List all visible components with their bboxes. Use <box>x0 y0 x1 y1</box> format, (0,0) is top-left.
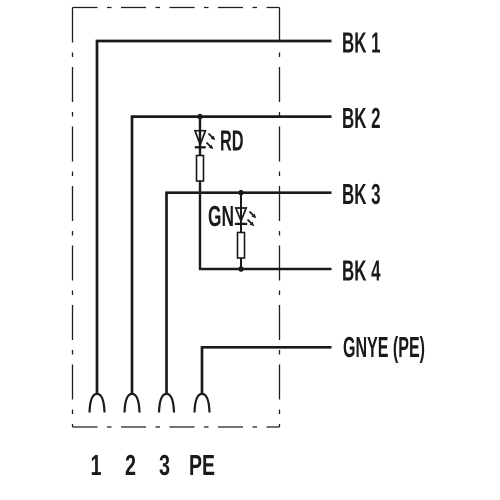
svg-text:GN: GN <box>208 201 234 233</box>
svg-text:3: 3 <box>159 450 170 482</box>
svg-text:BK 3: BK 3 <box>342 179 381 211</box>
svg-text:BK 4: BK 4 <box>342 256 381 288</box>
svg-text:1: 1 <box>91 450 102 482</box>
svg-text:BK 1: BK 1 <box>342 28 381 60</box>
svg-text:PE: PE <box>189 450 215 482</box>
svg-text:GNYE (PE): GNYE (PE) <box>343 332 425 364</box>
svg-text:BK 2: BK 2 <box>342 103 381 135</box>
svg-text:RD: RD <box>220 126 244 158</box>
svg-text:2: 2 <box>125 450 136 482</box>
